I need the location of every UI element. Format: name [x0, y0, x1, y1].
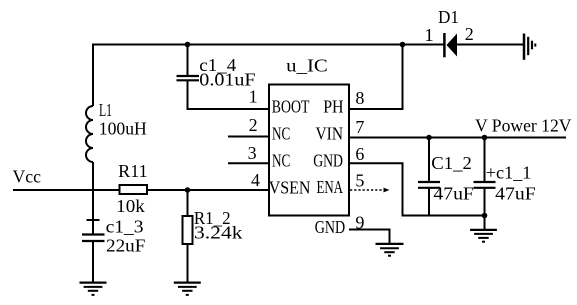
svg-text:3.24k: 3.24k: [194, 223, 243, 243]
svg-text:47uF: 47uF: [495, 184, 536, 204]
svg-text:2: 2: [249, 115, 258, 135]
wire: c1_3 bottom to ground: [92, 242, 94, 282]
diode D1 triangle: [447, 34, 458, 57]
svg-text:GND: GND: [315, 217, 345, 237]
capacitor c1_3 plates: [82, 235, 105, 242]
wire: IC pin 5 ENA dashed stub: [350, 189, 384, 191]
node: VIN rail / c1_1 junction: [482, 135, 488, 141]
wire: Vcc horizontal rail to IC pin 4: [13, 189, 269, 191]
wire: C1_2 bottom to ground rail: [428, 189, 430, 216]
ground at IC pin 9: [376, 244, 404, 256]
svg-text:6: 6: [355, 144, 364, 164]
svg-text:BOOT: BOOT: [272, 96, 310, 116]
svg-text:+c1_1: +c1_1: [486, 163, 532, 183]
svg-text:u_IC: u_IC: [286, 56, 328, 76]
diode D1 cathode bar: [443, 33, 446, 57]
svg-text:100uH: 100uH: [99, 119, 147, 139]
svg-text:L1: L1: [99, 100, 112, 120]
svg-text:Vcc: Vcc: [13, 167, 42, 187]
wire: R1_2 bottom to ground: [187, 244, 189, 282]
svg-text:C1_2: C1_2: [431, 153, 472, 173]
wire: IC pin 2 stub: [228, 136, 269, 138]
ground under c1_3: [80, 283, 107, 295]
wire: IC pin 6 GND down and right to cap bottoms: [349, 163, 485, 215]
svg-text:8: 8: [355, 88, 364, 108]
svg-text:0.01uF: 0.01uF: [199, 70, 255, 90]
wire: IC pin 9 GND to ground: [349, 230, 390, 244]
node: top rail / pin 8 riser junction: [400, 42, 406, 48]
svg-text:GND: GND: [313, 150, 343, 170]
resistor R1_2 body: [183, 216, 193, 244]
node: Vcc rail / R1_2 junction: [185, 187, 191, 193]
ground under R1_2: [174, 283, 201, 295]
capacitor c1_4 plates: [177, 76, 200, 80]
svg-text:10k: 10k: [116, 196, 145, 216]
node: VIN rail / C1_2 junction: [426, 135, 432, 141]
capacitor C1_2 plates: [418, 182, 440, 188]
earth ground right of D1 (rotated): [524, 34, 535, 60]
capacitor c1_1 plates: [474, 182, 496, 188]
wire: IC pin 7 VIN rail to V Power 12V: [349, 137, 566, 139]
ground under c1_1: [470, 230, 497, 242]
svg-text:9: 9: [355, 213, 364, 233]
svg-text:D1: D1: [438, 7, 459, 27]
capacitor c1_3 polarity plus tick: [87, 219, 100, 221]
resistor R11 body: [120, 185, 148, 194]
svg-text:22uF: 22uF: [106, 236, 145, 256]
svg-text:1: 1: [424, 25, 434, 45]
node: top rail / c1_4 junction: [185, 42, 191, 48]
svg-text:47uF: 47uF: [433, 184, 474, 204]
svg-text:PH: PH: [323, 96, 343, 116]
wire: IC pin 8 PH to riser: [349, 45, 403, 110]
wire: VIN rail down to C1_2: [428, 138, 430, 182]
svg-text:5: 5: [355, 171, 364, 191]
svg-text:V Power 12V: V Power 12V: [475, 116, 572, 136]
svg-text:NC: NC: [272, 124, 290, 144]
wire: diode anode to right-side earth ground: [457, 44, 523, 46]
svg-text:4: 4: [251, 170, 260, 190]
wire: c1_4 bottom down then right to IC pin 1: [188, 81, 270, 109]
wire: top rail from L1 top to diode D1 cathode: [93, 44, 444, 46]
wire: branch down to R1_2: [187, 190, 189, 216]
wire: c1_1 bottom to ground stem: [484, 189, 486, 229]
svg-text:1: 1: [249, 87, 258, 107]
wire: left vertical drop from top rail to L1: [92, 44, 94, 107]
svg-text:R11: R11: [118, 161, 148, 181]
svg-text:c1_3: c1_3: [106, 217, 144, 237]
svg-text:7: 7: [355, 117, 364, 137]
node: ground rail / c1_1 junction: [482, 213, 488, 219]
svg-text:3: 3: [248, 143, 257, 163]
inductor L1 coil: [86, 106, 93, 162]
wire: VIN rail down to c1_1: [484, 138, 486, 182]
op-amp/regulator IC body u_IC: [269, 85, 349, 216]
svg-text:2: 2: [465, 24, 474, 44]
wire: IC pin 3 stub: [228, 162, 269, 164]
wire: L1 bottom through Vcc node down to c1_3: [92, 162, 94, 234]
svg-text:VIN: VIN: [316, 124, 344, 144]
wire: top rail down to c1_4: [187, 45, 189, 76]
svg-text:NC: NC: [272, 150, 290, 170]
svg-text:ENA: ENA: [317, 177, 344, 197]
svg-text:VSEN: VSEN: [269, 177, 311, 197]
arrowhead at end of pin 5 stub: [384, 188, 390, 193]
